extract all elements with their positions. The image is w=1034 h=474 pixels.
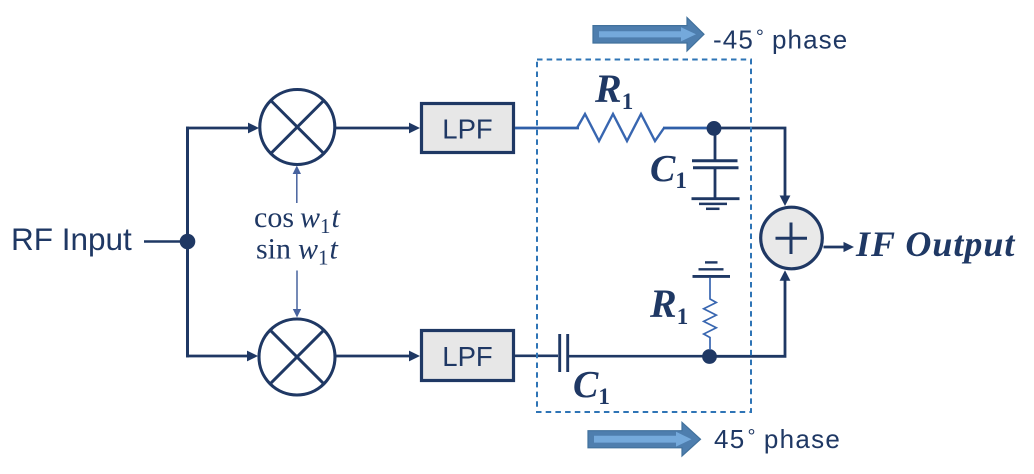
resistor R1 (top): [577, 114, 664, 141]
capacitor C1 (top, shunt): [692, 128, 739, 198]
wire LPF1 to R1: [515, 127, 579, 130]
ground (top branch): [692, 199, 740, 209]
wire C1 to node C: [569, 355, 704, 358]
wire R1 to node B: [663, 127, 708, 130]
svg-text:RF Input: RF Input: [11, 221, 132, 257]
svg-text:45°phase: 45°phase: [714, 424, 841, 454]
ground (bottom branch, inverted): [693, 262, 731, 276]
capacitor C1 (bottom, series): [560, 334, 568, 372]
LPF box 1: [422, 104, 514, 153]
svg-text:R1: R1: [594, 66, 633, 114]
summer U3: [761, 207, 823, 269]
node C: [702, 349, 717, 364]
mixer U2 (bottom): [259, 319, 335, 395]
resistor R1 (bottom, vertical): [704, 278, 717, 350]
wire bottom branch to mixer 2: [186, 351, 258, 362]
block arrow (top, -45 deg path): [593, 18, 704, 52]
wire LO arrow to mixer 2: [293, 271, 301, 318]
wire mixer 2 to LPF 2: [335, 351, 420, 362]
svg-text:C1: C1: [573, 364, 610, 409]
node input junction: [180, 234, 196, 250]
wire mixer 1 to LPF 1: [335, 123, 420, 134]
svg-text:R1: R1: [649, 281, 688, 329]
wire node C to summer (bottom input): [712, 270, 790, 356]
svg-text:IF Output: IF Output: [855, 224, 1015, 264]
wire LPF2 to C1: [515, 354, 558, 357]
svg-text:LPF: LPF: [442, 114, 492, 145]
node B: [707, 121, 722, 136]
wire summer to IF output: [824, 242, 855, 252]
wire LO arrow to mixer 1: [293, 166, 301, 204]
wire top branch to mixer 1: [186, 123, 259, 134]
LPF box 2: [422, 331, 514, 381]
svg-text:LPF: LPF: [442, 341, 492, 372]
wire RF lead: [144, 240, 184, 243]
svg-text:-45°phase: -45°phase: [713, 25, 848, 55]
wire node B to summer (top input): [714, 128, 790, 206]
dashed network boundary box: [537, 60, 751, 413]
svg-text:C1: C1: [650, 148, 687, 193]
svg-text:sinw1t: sinw1t: [256, 233, 339, 270]
mixer U1 (top): [260, 90, 335, 165]
wire input bus vertical: [186, 127, 189, 358]
block arrow (bottom, 45 deg path): [588, 422, 701, 456]
